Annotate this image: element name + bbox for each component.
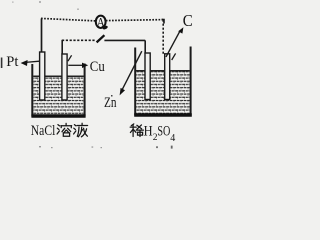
wire: middle rail vertical at Cu electrode [61,40,63,54]
right beaker liquid surface line [136,70,190,72]
wire: right vertical (dashed, down to C electrode) [162,20,164,55]
switch S blade [97,35,105,42]
C arrowhead [178,27,183,33]
electrode Zn plate [145,53,150,100]
right beaker liquid (dilute H2SO4) [136,71,189,114]
wire: top rail right segment (dotted, ammeter to right corner) [106,20,164,21]
label 液 (hand drawn) [74,123,88,137]
label 溶 (hand drawn) [57,123,72,136]
wire: top rail left segment (dotted, to ammeter) [41,18,96,21]
left beaker liquid surface line [33,75,84,77]
C pointer line [166,31,180,57]
svg-text:SO: SO [157,124,170,140]
Cu pointer line [68,64,83,66]
svg-text:H: H [144,124,153,140]
left edge scan artifact [1,58,3,69]
svg-text:NaCl: NaCl [31,123,56,139]
right beaker wall left [134,48,136,116]
Zn pointer line [122,51,142,89]
left beaker liquid (NaCl solution) [33,77,83,115]
left beaker wall left [31,64,33,117]
Zn arrowhead [120,88,125,96]
svg-text:Zn: Zn [104,95,117,111]
electrode Cu plate [62,54,67,100]
left beaker wall right [84,64,86,117]
tiny ink speck near Zn [111,95,113,97]
electrode Pt plate [40,52,45,100]
Cu arrowhead [82,63,88,68]
wire: top loop left vertical (Pt electrode to top rail) [41,19,43,54]
wire: middle rail dotted segment to switch [62,39,95,41]
ammeter U1 [96,16,106,28]
right beaker bottom [134,113,192,116]
label 稀 (hand drawn) [130,124,143,137]
C clip tick [172,53,176,60]
wire: middle rail right solid segment [104,39,145,41]
wire: vertical down to Zn electrode [144,40,146,54]
right beaker wall right [190,47,192,116]
faint scan specks top edge [12,1,79,10]
svg-text:Cu: Cu [90,59,105,75]
Pt arrowhead [21,60,28,66]
svg-text:Pt: Pt [6,54,18,70]
switch S knob blob [102,25,108,30]
left beaker bottom [31,114,85,117]
Pt pointer line [26,61,40,62]
Cu clip tick [68,55,72,61]
svg-text:C: C [183,11,193,30]
faint scan specks bottom edge [39,146,173,149]
svg-text:4: 4 [170,133,175,144]
electrode C plate [165,54,170,100]
